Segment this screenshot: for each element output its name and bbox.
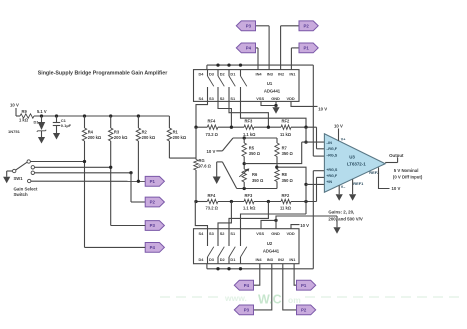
- svg-text:P4: P4: [150, 245, 156, 250]
- svg-text:R1: R1: [173, 130, 179, 135]
- svg-text:10 V: 10 V: [318, 107, 327, 112]
- svg-text:www.: www.: [224, 293, 247, 303]
- svg-text:R9: R9: [22, 109, 28, 114]
- svg-text:S3: S3: [209, 231, 215, 236]
- svg-text:RF4: RF4: [208, 193, 216, 198]
- svg-text:200, and 500 V/V: 200, and 500 V/V: [328, 216, 362, 221]
- svg-text:0.1µF: 0.1µF: [61, 123, 72, 128]
- svg-text:10 V: 10 V: [300, 223, 309, 228]
- svg-text:P2: P2: [301, 308, 307, 313]
- svg-text:200 kΩ: 200 kΩ: [142, 135, 156, 140]
- svg-text:+RG,S: +RG,S: [326, 168, 338, 172]
- svg-text:RF3: RF3: [245, 119, 253, 124]
- svg-text:(0 V Diff Input): (0 V Diff Input): [393, 175, 423, 180]
- svg-text:P2: P2: [303, 23, 309, 28]
- svg-text:10 V: 10 V: [392, 186, 401, 191]
- svg-text:RF4: RF4: [208, 119, 216, 124]
- svg-text:350 Ω: 350 Ω: [252, 178, 264, 183]
- svg-text:ADG441: ADG441: [263, 248, 280, 253]
- svg-text:350 Ω: 350 Ω: [282, 151, 294, 156]
- svg-text:11 kΩ: 11 kΩ: [280, 205, 292, 210]
- svg-text:SW1: SW1: [14, 176, 24, 181]
- svg-text:VSS: VSS: [256, 96, 264, 101]
- svg-text:GND: GND: [271, 231, 280, 236]
- svg-text:D4: D4: [199, 257, 205, 262]
- svg-text:om: om: [288, 295, 301, 305]
- svg-text:+RG,F: +RG,F: [326, 174, 338, 178]
- svg-text:S1: S1: [230, 231, 236, 236]
- svg-text:U3: U3: [349, 155, 355, 160]
- svg-text:5 V Nominal: 5 V Nominal: [394, 168, 419, 173]
- svg-text:R6: R6: [252, 172, 258, 177]
- svg-text:RF2: RF2: [282, 193, 290, 198]
- svg-text:W.C: W.C: [258, 293, 282, 307]
- svg-text:Gains: 2, 20,: Gains: 2, 20,: [328, 210, 354, 215]
- svg-text:VDD: VDD: [287, 231, 295, 236]
- svg-text:Gain Select: Gain Select: [14, 186, 38, 191]
- svg-text:D3: D3: [209, 257, 215, 262]
- svg-text:V–: V–: [341, 185, 346, 189]
- svg-text:73.2 Ω: 73.2 Ω: [206, 205, 219, 210]
- svg-text:V+: V+: [341, 138, 346, 142]
- svg-text:350 Ω: 350 Ω: [282, 178, 294, 183]
- svg-text:VSS: VSS: [256, 231, 264, 236]
- svg-text:IN4: IN4: [256, 257, 263, 262]
- svg-text:P1: P1: [303, 46, 309, 51]
- svg-text:LT6372-1: LT6372-1: [347, 161, 366, 166]
- svg-text:S4: S4: [199, 231, 205, 236]
- svg-text:P4: P4: [246, 46, 252, 51]
- svg-text:R7: R7: [282, 145, 288, 150]
- svg-text:10 V: 10 V: [207, 149, 216, 154]
- svg-text:IN3: IN3: [267, 71, 274, 76]
- svg-text:97.6 Ω: 97.6 Ω: [199, 164, 212, 169]
- svg-text:ADG441: ADG441: [264, 89, 281, 94]
- svg-text:VDD: VDD: [287, 96, 295, 101]
- svg-text:P2: P2: [150, 200, 156, 205]
- svg-text:1N751: 1N751: [8, 129, 21, 134]
- svg-text:+IN: +IN: [326, 180, 332, 184]
- svg-text:P4: P4: [244, 283, 250, 288]
- svg-text:R5: R5: [249, 145, 255, 150]
- svg-text:RF2: RF2: [282, 119, 290, 124]
- svg-text:D1: D1: [230, 71, 236, 76]
- svg-text:S2: S2: [220, 96, 226, 101]
- svg-text:P1: P1: [150, 179, 156, 184]
- svg-text:P3: P3: [244, 308, 250, 313]
- svg-text:D2: D2: [220, 257, 226, 262]
- svg-text:73.2 Ω: 73.2 Ω: [206, 132, 219, 137]
- svg-text:RG: RG: [199, 158, 205, 163]
- svg-text:R4: R4: [88, 130, 94, 135]
- svg-text:IN2: IN2: [278, 257, 285, 262]
- svg-text:D1: D1: [34, 120, 40, 125]
- svg-text:200 kΩ: 200 kΩ: [88, 135, 102, 140]
- svg-text:R3: R3: [114, 130, 120, 135]
- svg-text:200 kΩ: 200 kΩ: [114, 135, 128, 140]
- svg-text:GND: GND: [271, 96, 280, 101]
- svg-text:U1: U1: [267, 81, 273, 86]
- svg-text:IN1: IN1: [289, 71, 296, 76]
- svg-text:Single-Supply Bridge Programma: Single-Supply Bridge Programmable Gain A…: [38, 71, 168, 77]
- svg-text:S2: S2: [220, 231, 226, 236]
- svg-text:P3: P3: [150, 223, 156, 228]
- svg-text:IN2: IN2: [278, 71, 285, 76]
- svg-text:10 V: 10 V: [10, 103, 19, 108]
- svg-text:–IN: –IN: [326, 141, 332, 145]
- svg-text:S1: S1: [230, 96, 236, 101]
- svg-text:Output: Output: [389, 153, 404, 158]
- svg-text:R8: R8: [282, 172, 288, 177]
- svg-text:Switch: Switch: [14, 192, 28, 197]
- svg-text:10 V: 10 V: [334, 123, 343, 128]
- svg-text:R2: R2: [142, 130, 148, 135]
- svg-text:REF1: REF1: [353, 181, 364, 186]
- svg-text:1 kΩ: 1 kΩ: [19, 118, 29, 123]
- svg-text:D2: D2: [220, 71, 226, 76]
- svg-text:IN3: IN3: [267, 257, 274, 262]
- svg-text:–RG,F: –RG,F: [326, 147, 338, 151]
- svg-text:D1: D1: [230, 257, 236, 262]
- svg-text:U2: U2: [267, 241, 273, 246]
- svg-text:RF3: RF3: [245, 193, 253, 198]
- svg-text:S3: S3: [209, 96, 215, 101]
- svg-text:D4: D4: [199, 71, 205, 76]
- svg-text:P3: P3: [246, 23, 252, 28]
- svg-text:200 kΩ: 200 kΩ: [173, 135, 187, 140]
- svg-text:IN1: IN1: [289, 257, 296, 262]
- svg-text:D3: D3: [209, 71, 215, 76]
- svg-text:S4: S4: [199, 96, 205, 101]
- svg-text:P1: P1: [301, 283, 307, 288]
- svg-text:11 kΩ: 11 kΩ: [280, 132, 292, 137]
- svg-text:5.1 V: 5.1 V: [37, 109, 47, 114]
- svg-text:IN4: IN4: [256, 71, 263, 76]
- svg-text:1.1 kΩ: 1.1 kΩ: [243, 132, 256, 137]
- svg-text:1.1 kΩ: 1.1 kΩ: [243, 205, 256, 210]
- svg-text:350 Ω: 350 Ω: [249, 151, 261, 156]
- svg-text:–RG,S: –RG,S: [326, 154, 338, 158]
